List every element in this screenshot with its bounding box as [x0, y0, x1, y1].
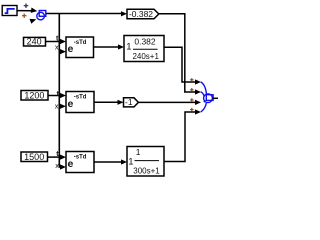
gain G1 -0.382: [127, 9, 159, 19]
transfer fcn TF1 0.382/(240s+1): [124, 36, 164, 62]
delay block U3 e^-sTd: [66, 152, 94, 173]
constant block 1200: [21, 91, 48, 101]
wire 1200 to delay2 t: [48, 95, 62, 97]
plus sign input1 sum1: [24, 3, 29, 8]
gain G2 -1: [124, 97, 139, 107]
svg-text:x: x: [55, 101, 59, 110]
step source block: [2, 6, 17, 16]
sum block sum1: [37, 11, 46, 20]
wire 240 to delay1 t: [46, 41, 62, 43]
delay block U1 e^-sTd: [66, 37, 94, 58]
wire gain1 to sum2 input2: [159, 14, 196, 92]
wire gain2 to sum2 input3: [138, 101, 196, 103]
svg-text:0.382: 0.382: [134, 36, 156, 46]
svg-text:1200: 1200: [24, 91, 44, 101]
sum block sum2: [201, 82, 213, 112]
constant block 240: [24, 37, 46, 47]
wire delay2 to gain2: [94, 101, 119, 103]
wire delay3 to tf2: [94, 161, 123, 163]
plus sign input1 sum2: [190, 78, 194, 82]
svg-text:240s+1: 240s+1: [132, 52, 159, 61]
wire trunk to delay2 x: [59, 105, 61, 107]
svg-text:e: e: [68, 98, 74, 110]
plus sign input2 sum1: [22, 14, 27, 18]
plus sign input3 sum2: [190, 98, 194, 102]
node junction trunk: [58, 14, 60, 168]
svg-text:-sTd: -sTd: [74, 95, 87, 101]
wire tf1 to sum2 input1: [164, 47, 196, 82]
svg-text:1: 1: [136, 147, 141, 157]
svg-text:1500: 1500: [24, 152, 44, 162]
svg-text:1: 1: [126, 42, 131, 53]
svg-text:x: x: [55, 161, 59, 170]
svg-text:-sTd: -sTd: [74, 40, 87, 46]
wire trunk to delay1 x: [59, 51, 61, 53]
wire sum1 output to gain: [46, 13, 123, 15]
transfer fcn TF2 1/(300s+1): [127, 147, 164, 177]
svg-text:e: e: [68, 43, 74, 55]
wire sum2 output: [212, 97, 218, 99]
arrow into gain1: [121, 11, 127, 16]
wire 1500 to delay3 t: [48, 156, 62, 158]
delay block U2 e^-sTd: [66, 92, 94, 113]
svg-text:x: x: [55, 42, 59, 51]
plus sign input2 sum2: [190, 88, 194, 92]
wire delay1 to tf1: [94, 46, 120, 48]
wire step to sum1: [17, 8, 37, 13]
constant block 1500: [21, 152, 48, 162]
plus sign input4 sum2: [190, 108, 194, 112]
wire tf2 to sum2 input4: [164, 112, 196, 162]
feedback stub arrow into sum1: [30, 19, 37, 24]
svg-text:240: 240: [27, 37, 42, 47]
svg-text:-1: -1: [125, 97, 133, 107]
svg-text:e: e: [68, 158, 74, 170]
svg-text:-sTd: -sTd: [74, 155, 87, 161]
svg-text:300s+1: 300s+1: [133, 167, 160, 176]
svg-text:-0.382: -0.382: [129, 9, 153, 19]
wire trunk to delay3 x: [59, 166, 61, 168]
